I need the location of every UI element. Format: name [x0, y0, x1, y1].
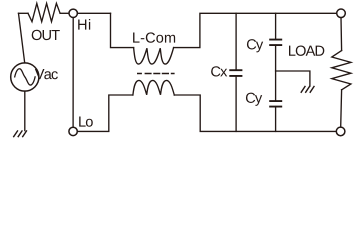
- wire: resistor to Hi node: [60, 12, 69, 14]
- capacitor Cy (top) plates: [269, 40, 282, 46]
- wire: between Cy capacitors: [275, 45, 277, 101]
- capacitor Cy (top) lead from top rail: [275, 13, 277, 39]
- capacitor Cy (bottom) plates: [269, 101, 282, 107]
- wire: top-left corner to resistor: [19, 12, 29, 14]
- wire: Lo node to choke bottom winding: [77, 95, 132, 131]
- load terminal circle (bottom right): [336, 127, 345, 136]
- wire: choke bottom winding to bottom rail: [174, 95, 336, 131]
- label LOAD: [289, 46, 324, 56]
- resistor R-OUT zigzag: [28, 3, 60, 21]
- label Cy (top): [247, 39, 263, 52]
- label Cx: [211, 66, 227, 76]
- wire: step down to choke top winding: [111, 13, 134, 47]
- ground symbol (Cy midpoint): [301, 86, 315, 93]
- label Vac: [35, 69, 58, 79]
- wire: top corner down to source Vac: [19, 13, 25, 63]
- label OUT: [32, 30, 60, 40]
- wire: Hi node to step corner: [77, 12, 110, 14]
- wire: Cy midpoint tap to ground: [276, 71, 310, 86]
- coupling dashed line of L-Com: [137, 73, 175, 75]
- label Hi: [78, 19, 90, 30]
- ground symbol (source): [13, 130, 27, 137]
- inductor L-Com top winding (3 U loops below line): [134, 48, 174, 65]
- wire: load resistor to bottom terminal: [340, 90, 343, 127]
- source Vac circle: [11, 63, 39, 91]
- capacitor Cx top lead: [235, 13, 237, 70]
- node Hi terminal circle: [69, 9, 77, 17]
- node Lo terminal circle: [69, 127, 77, 135]
- label Cy (bottom): [246, 93, 262, 106]
- inductor L-Com bottom winding (3 arcs above line): [133, 80, 174, 95]
- wire: vertical Hi to Lo: [72, 18, 74, 128]
- source Vac sine wave: [15, 69, 35, 85]
- wire: top terminal to load resistor: [340, 18, 343, 51]
- wire: Vac to ground: [24, 91, 26, 131]
- label Lo: [79, 117, 93, 127]
- load terminal circle (top right): [337, 9, 346, 18]
- capacitor Cx bottom lead: [235, 76, 237, 131]
- wire: choke top winding to top rail: [174, 13, 337, 47]
- resistor LOAD zigzag: [332, 51, 351, 90]
- capacitor Cy (bottom) lead to bottom rail: [275, 107, 277, 132]
- capacitor Cx plates: [229, 70, 242, 76]
- label L-Com: [133, 32, 175, 42]
